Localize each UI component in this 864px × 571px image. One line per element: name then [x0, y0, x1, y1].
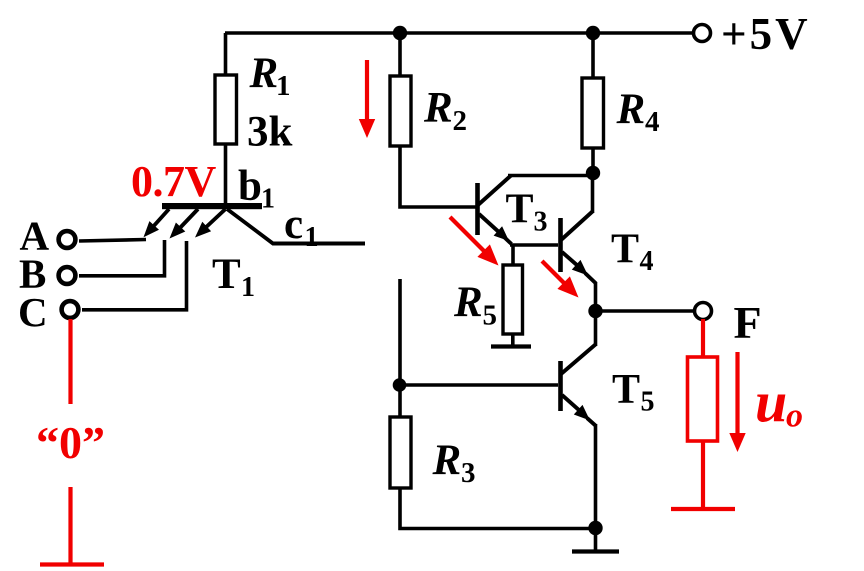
- node junction top of R4: [586, 26, 600, 40]
- u_o arrow: [735, 352, 739, 436]
- wire T5 base node to R3: [398, 385, 402, 418]
- node junction T5 emitter / bottom rail: [588, 521, 602, 535]
- svg-text:o: o: [786, 398, 803, 435]
- resistor R3: [390, 417, 411, 488]
- svg-text:R: R: [249, 50, 279, 97]
- red wire from C down (logic 0): [68, 319, 72, 404]
- wire input B to emitter 2: [79, 240, 165, 276]
- wire R3 to bottom rail: [400, 488, 595, 529]
- resistor R5: [503, 265, 523, 334]
- wire node to R5: [511, 245, 515, 266]
- ground bar under R5: [491, 344, 531, 348]
- transistor T1 base bar: [162, 203, 262, 209]
- red wire F to load: [701, 319, 705, 358]
- svg-text:1: 1: [305, 222, 319, 253]
- F terminal circle: [695, 303, 712, 320]
- svg-text:T: T: [212, 251, 241, 298]
- +5V terminal circle: [694, 25, 711, 42]
- svg-text:T: T: [506, 187, 534, 233]
- svg-text:3: 3: [461, 457, 476, 489]
- T1 emitter 3 (to C): [203, 209, 226, 230]
- svg-text:C: C: [18, 289, 48, 335]
- T4 collector wire: [561, 211, 593, 240]
- node junction output F: [588, 304, 602, 318]
- transistor T4 bar: [558, 218, 563, 272]
- ground bar bottom: [572, 549, 619, 553]
- svg-text:5: 5: [641, 387, 655, 418]
- resistor R4: [582, 78, 604, 148]
- node junction R4 bottom / T3 collector / T4 collector: [586, 166, 600, 180]
- T1 collector c1: [227, 209, 365, 244]
- resistor R1: [215, 75, 237, 144]
- transistor T5 bar: [558, 361, 563, 411]
- svg-text:1: 1: [241, 272, 255, 303]
- wire T3 emitter to T4 base: [510, 243, 558, 247]
- wire top rail to R1: [224, 33, 228, 76]
- T5 base wire: [399, 383, 558, 387]
- current arrow beside R2: [365, 60, 369, 122]
- dangling wire above T5 base node: [398, 279, 402, 385]
- wire input A to emitter 1: [79, 240, 146, 242]
- current arrow through T4: [542, 261, 566, 285]
- svg-text:T: T: [612, 367, 640, 413]
- T1 emitter 2 (to B): [177, 209, 198, 231]
- svg-text:c: c: [284, 201, 303, 248]
- red wire to low level bar: [68, 487, 72, 564]
- svg-text:“0”: “0”: [36, 417, 105, 468]
- svg-text:u: u: [755, 370, 787, 435]
- svg-text:R: R: [453, 279, 483, 326]
- svg-text:3k: 3k: [247, 109, 293, 156]
- T5 emitter wire: [562, 395, 580, 411]
- input B terminal circle: [59, 267, 76, 284]
- input C terminal circle: [62, 301, 79, 318]
- wire output node to F terminal: [595, 309, 694, 313]
- red wire load to ground: [701, 441, 705, 508]
- input A terminal circle: [59, 231, 76, 248]
- T5 collector wire: [561, 344, 596, 374]
- wire +5V top rail: [225, 31, 693, 35]
- svg-text:1: 1: [276, 70, 291, 102]
- T4 emitter wire: [562, 252, 578, 266]
- svg-text:2: 2: [453, 105, 468, 137]
- load resistor (red): [688, 357, 718, 441]
- svg-text:T: T: [611, 227, 639, 273]
- svg-text:R: R: [423, 85, 453, 132]
- svg-text:5: 5: [483, 300, 498, 332]
- svg-text:4: 4: [640, 246, 654, 277]
- current arrow through T3: [450, 217, 485, 252]
- wire R2 to T3 base: [400, 146, 476, 207]
- wire R4 to collector node: [591, 148, 595, 173]
- svg-text:1: 1: [261, 184, 275, 215]
- svg-text:4: 4: [645, 106, 660, 138]
- svg-text:+5V: +5V: [721, 9, 811, 59]
- T1 emitter 1 (to A): [151, 209, 169, 229]
- transistor T3 bar: [475, 183, 480, 235]
- svg-text:3: 3: [534, 207, 548, 238]
- red ground bar under load: [671, 507, 735, 511]
- svg-text:0.7V: 0.7V: [131, 157, 217, 206]
- resistor R2: [390, 76, 411, 146]
- wire top rail to R4: [591, 33, 595, 79]
- red ground bar (low level): [40, 562, 104, 566]
- svg-text:b: b: [238, 163, 262, 210]
- T3 collector wire: [478, 176, 511, 206]
- svg-text:R: R: [616, 86, 646, 133]
- T3 emitter wire: [479, 214, 501, 234]
- wire R5 to ground: [511, 334, 515, 346]
- wire top rail to R2: [398, 33, 402, 77]
- wire bottom node to ground: [594, 528, 598, 551]
- wire input C to emitter 3: [82, 241, 187, 310]
- node junction T5 base / R3: [393, 378, 407, 392]
- node junction top of R2: [393, 26, 407, 40]
- svg-text:R: R: [432, 437, 462, 484]
- wire R1 to T1 base: [224, 144, 228, 205]
- svg-text:F: F: [734, 297, 762, 348]
